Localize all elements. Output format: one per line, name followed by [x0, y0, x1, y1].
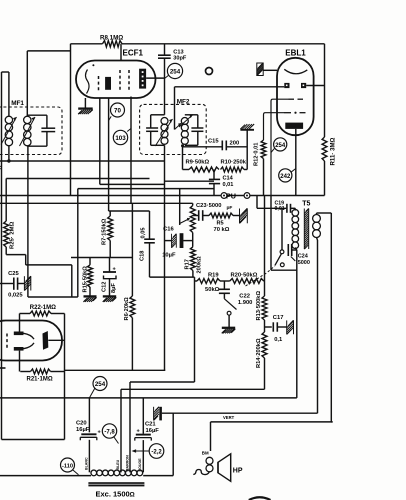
- resistor R15 50k: [88, 265, 93, 287]
- svg-text:1.900: 1.900: [238, 300, 253, 306]
- tick circle 70: [109, 116, 112, 120]
- svg-text:R20·50kΩ: R20·50kΩ: [231, 273, 258, 279]
- wire C23 to R5: [203, 215, 209, 217]
- inductor speaker voice coil: [206, 457, 213, 464]
- wire C22 top lead: [223, 281, 225, 289]
- grid cap connector (hatched): [257, 74, 259, 76]
- tube EBL1 diode anode left: [284, 83, 289, 88]
- wire MF2 column corner up: [164, 369, 166, 371]
- svg-text:+: +: [98, 430, 101, 436]
- tube ECF1 envelope: [76, 61, 156, 99]
- wire R12 bottom: [263, 159, 265, 196]
- capacitor MF1 tuning: [41, 127, 55, 129]
- capacitor C24 5000: [287, 244, 289, 256]
- wire voice coil hook: [193, 470, 209, 475]
- svg-text:C17: C17: [273, 315, 284, 321]
- wire R6 bottom lead: [131, 318, 133, 371]
- wire bus5 (to volume pot): [0, 202, 193, 204]
- arrow MF2 coupling tap: [175, 123, 182, 130]
- voltage circle 103: [113, 130, 127, 144]
- wire right box edge upper: [324, 44, 326, 137]
- arrow MF1 primary (adjustable): [1, 117, 17, 145]
- tick circle -7,8: [114, 437, 119, 444]
- wire C17 left lead: [265, 326, 272, 328]
- wire MF2 right cap branch bottom: [185, 144, 198, 146]
- wire bus3 to C14: [165, 180, 215, 182]
- wire row y277: [150, 276, 195, 278]
- wire C19 to T5: [291, 207, 296, 209]
- svg-text:EBL1: EBL1: [285, 49, 306, 58]
- wire C13 column upper: [164, 44, 166, 55]
- tube ECF1 triode anode: [105, 77, 111, 90]
- wire R14 bottom lead: [264, 358, 266, 389]
- svg-text:R25· 2MΩ: R25· 2MΩ: [10, 221, 16, 249]
- tube ECF1 grid g2 (dashed): [119, 70, 121, 91]
- capacitor C20 16uF (electrolytic): [81, 433, 96, 435]
- wire pot to C23: [193, 215, 199, 217]
- wire EBL1 anode to R11 column: [306, 85, 324, 87]
- svg-text:C18: C18: [139, 251, 145, 261]
- wire switch pole: [281, 208, 283, 250]
- tick circle -110: [73, 470, 79, 475]
- wire pot top lead: [192, 203, 194, 205]
- wire C14 bottom lead: [213, 184, 215, 196]
- svg-text:16µF: 16µF: [146, 428, 160, 434]
- tube V4 cathode wedge: [43, 331, 49, 350]
- wire MF1 cap lead bottom: [46, 132, 48, 147]
- arrow MF2 primary (adjustable): [155, 119, 172, 146]
- wire C15 row left: [183, 146, 222, 148]
- wire C21 column top: [142, 398, 144, 434]
- resistor R22 1M: [30, 311, 51, 316]
- svg-text:MF1: MF1: [11, 100, 24, 107]
- wire MF2 right cap branch top: [185, 114, 198, 116]
- capacitor C22 1900: [219, 288, 230, 290]
- svg-text:C14: C14: [223, 176, 234, 182]
- svg-text:T5: T5: [302, 201, 310, 208]
- tick circle 254 bottom: [89, 388, 94, 398]
- tube ECF1 heater filament: [86, 70, 90, 94]
- wire MF1 cap branch bottom: [27, 145, 47, 147]
- wire R13-R14 link: [264, 320, 266, 332]
- svg-text:R14·200kΩ: R14·200kΩ: [256, 338, 262, 368]
- wire ECF1 pentode anode to C13 node: [146, 77, 164, 79]
- arrow pot wiper: [180, 219, 189, 224]
- junction dot MF1 bottom: [7, 159, 10, 162]
- resistor R12 0,01: [261, 140, 266, 159]
- wire row y382: [130, 381, 195, 383]
- tube V4 envelope: [0, 321, 62, 361]
- wire feed row y257: [71, 257, 132, 259]
- wire bus3 (short): [100, 183, 165, 185]
- wire speaker drop: [210, 422, 212, 451]
- tube ECF1 grid g1 (dashed): [98, 76, 100, 91]
- wire switch box bottom: [271, 269, 297, 271]
- inductor MF1 secondary: [24, 116, 31, 123]
- wire MF2 left cap branch top: [151, 114, 165, 116]
- wire MF2 left cap lead bottom: [150, 131, 152, 145]
- wire R7 top link: [109, 210, 150, 212]
- wire R7 bottom lead: [109, 211, 111, 216]
- svg-text:BLANC: BLANC: [85, 457, 89, 470]
- capacitor C25 0,025: [13, 278, 15, 290]
- svg-text:50kΩ: 50kΩ: [205, 287, 220, 293]
- wire MF1 cap lead top: [46, 115, 48, 128]
- chassis cap block (hatched): [154, 418, 156, 420]
- svg-text:0,025: 0,025: [8, 293, 23, 299]
- tube EBL1 grid g2 (dash-dot): [284, 112, 291, 114]
- ground C12: [103, 295, 116, 297]
- box MF1 (dashed): [0, 107, 62, 155]
- svg-text:-110: -110: [62, 464, 73, 470]
- wire MF1 cap branch top: [27, 114, 47, 116]
- svg-text:BLEU: BLEU: [116, 459, 120, 469]
- resistor R6 20k: [130, 296, 135, 318]
- resistor R11 3M (inline right box edge): [322, 137, 327, 161]
- resistor R10 250k: [221, 167, 245, 172]
- wire C25 left lead: [0, 283, 14, 285]
- svg-text:R11· 3MΩ: R11· 3MΩ: [330, 137, 337, 165]
- terminal PU right: [244, 193, 250, 199]
- wire R19-R20 link: [220, 280, 230, 282]
- wire jog down: [25, 255, 27, 265]
- svg-text:R8 1MΩ: R8 1MΩ: [100, 35, 123, 42]
- wire C18 bottom lead: [149, 243, 151, 277]
- wire top bus right of R8: [122, 43, 325, 45]
- tick circle 242: [291, 169, 296, 173]
- chassis block C17 (hatched): [287, 332, 289, 334]
- voltage circle 70: [111, 103, 125, 117]
- svg-text:254: 254: [95, 381, 106, 388]
- chassis bar (hatched): [240, 127, 242, 129]
- svg-text:5000: 5000: [298, 260, 310, 266]
- wire EBL1 diode line from MF2: [175, 86, 285, 88]
- wire speaker line 2: [211, 421, 333, 423]
- svg-text:R10·250k: R10·250k: [221, 160, 247, 166]
- wire Exc right lead: [143, 475, 173, 477]
- svg-text:ECF1: ECF1: [123, 49, 144, 58]
- wire C14 top lead: [213, 170, 215, 180]
- svg-text:242: 242: [280, 174, 291, 180]
- svg-text:10µF: 10µF: [162, 253, 176, 259]
- tube V4 grid (dashed): [6, 334, 8, 351]
- resistor R17 200k: [190, 247, 195, 271]
- resistor R9 50k: [189, 167, 219, 172]
- wire C15 row right: [226, 146, 247, 148]
- terminal circle: [206, 68, 213, 75]
- voltage circle 254 bottom: [93, 377, 107, 391]
- capacitor C17 0,1: [272, 322, 274, 331]
- svg-text:200kΩ: 200kΩ: [196, 256, 202, 274]
- resistor R21 1M: [31, 369, 51, 374]
- wire pot col down: [194, 277, 196, 382]
- svg-text:pF: pF: [227, 205, 233, 211]
- svg-text:Exc. 1500: Exc. 1500: [96, 490, 130, 499]
- inductor MF1 primary: [5, 116, 12, 123]
- wire AVC link: [28, 296, 78, 298]
- tick circle 254 mid: [271, 149, 274, 153]
- wire R20 to R13 column: [263, 280, 266, 282]
- ground R15: [84, 295, 97, 297]
- dashed link R20-switch: [246, 266, 275, 286]
- arrow MF2 secondary (adjustable): [179, 115, 193, 128]
- wire R10 to chassis column: [244, 169, 247, 171]
- wire switch to ground: [228, 315, 230, 327]
- wire C25 right lead: [18, 283, 25, 285]
- svg-text:R6·20kΩ: R6·20kΩ: [124, 297, 130, 321]
- svg-text:C22: C22: [239, 293, 250, 299]
- svg-text:VERT: VERT: [223, 415, 235, 420]
- wire chassis column: [246, 130, 248, 170]
- capacitor C13 30pF: [158, 54, 171, 56]
- wire R6 top lead: [131, 203, 133, 296]
- capacitor MF2 primary tuning: [146, 127, 158, 129]
- wire bottom-left bus: [2, 439, 65, 441]
- svg-text:R15·50kΩ: R15·50kΩ: [82, 266, 88, 293]
- wire bus4: [78, 188, 214, 190]
- tube EBL1 diode anode right: [301, 83, 306, 88]
- wire C16 right lead: [183, 240, 193, 242]
- wire jog right: [26, 264, 72, 266]
- inductor Exc 1500 field coil: [91, 470, 97, 476]
- wire R25 top lead: [5, 179, 7, 222]
- chassis bar right of R5 (hatched): [240, 221, 242, 223]
- capacitor C19 0,01: [286, 204, 288, 213]
- voltage circle -110: [61, 458, 75, 472]
- inductor MF2 secondary: [181, 118, 188, 125]
- tube V4 diode plate upper: [14, 332, 24, 336]
- svg-text:R13·500kΩ: R13·500kΩ: [256, 291, 262, 321]
- svg-text:254: 254: [170, 69, 181, 76]
- wire C12 top lead: [109, 258, 111, 273]
- stamp arc bottom: [249, 497, 271, 500]
- wire EBL1 g2 hook down to R12: [264, 113, 285, 140]
- wire T5 secondary top: [316, 213, 318, 215]
- wire down to AVC node: [71, 265, 73, 297]
- wire R22 ends: [20, 313, 31, 315]
- wire MF1 secondary top lead: [26, 51, 28, 116]
- svg-text:C23·5000: C23·5000: [196, 203, 221, 209]
- switch pivot circle: [280, 263, 284, 267]
- wire row y398 (main B-): [0, 397, 297, 399]
- svg-text:-7,8: -7,8: [104, 430, 115, 436]
- potentiometer P volume: [190, 206, 195, 233]
- wire C19 feed: [256, 196, 258, 209]
- wire MF1 secondary bottom lead (AVC column): [27, 146, 29, 297]
- tube EBL1 heater arc: [284, 69, 307, 73]
- svg-text:Ω: Ω: [130, 492, 135, 499]
- svg-text:+: +: [137, 429, 140, 435]
- wire MF1 secondary feed: [27, 50, 70, 52]
- wire AVC bus: [0, 160, 165, 162]
- svg-text:8µF: 8µF: [111, 283, 117, 293]
- wire MF2 left cap branch bottom: [151, 144, 165, 146]
- wire right box edge lower: [324, 161, 326, 196]
- wire T5 secondary bottom: [317, 238, 318, 241]
- wire Exc left bus: [0, 475, 91, 477]
- wire C12 bottom lead: [109, 279, 111, 296]
- svg-text:C12: C12: [102, 282, 108, 292]
- wire C20 bottom lead (BLANC): [88, 440, 90, 473]
- svg-text:+: +: [113, 267, 116, 273]
- capacitor C16 10uF (electrolytic): [172, 246, 174, 248]
- switch contact circle: [227, 311, 231, 315]
- svg-text:0,01: 0,01: [275, 206, 285, 212]
- svg-text:C21: C21: [145, 422, 156, 428]
- tube ECF1 grid g3 (dashed): [128, 70, 130, 91]
- resistor R13 500k: [262, 296, 267, 320]
- wire MF2 primary bottom long column: [164, 145, 166, 370]
- arrow circle -2,2: [135, 450, 149, 452]
- wire left chain col: [77, 189, 79, 297]
- svg-text:70: 70: [114, 108, 121, 115]
- wire PU bus: [0, 195, 325, 197]
- resistor R19 50k: [197, 279, 220, 284]
- wire speaker line right: [330, 213, 332, 422]
- wire ECF1 heater down: [84, 98, 86, 108]
- switch contact top circle: [280, 250, 284, 254]
- wire R25 bottom to right: [6, 254, 26, 256]
- svg-text:C25: C25: [8, 271, 19, 277]
- svg-text:C15: C15: [208, 138, 219, 144]
- wire row y389: [121, 388, 265, 390]
- svg-text:0,01: 0,01: [223, 182, 234, 188]
- wire EBL1 grid tap into MF2: [174, 87, 176, 130]
- wire ECF1 pin down A: [99, 98, 101, 184]
- capacitor C14: [209, 178, 220, 180]
- capacitor C15 200: [221, 141, 223, 151]
- inductor MF2 primary: [161, 118, 168, 125]
- arrow MF1 secondary (adjustable): [20, 117, 36, 146]
- resistor R25 2M: [4, 221, 9, 247]
- wire feed from left bus: [2, 71, 9, 73]
- wire R25 bottom lead: [5, 247, 7, 255]
- svg-text:16µF: 16µF: [76, 427, 90, 433]
- svg-text:PU: PU: [226, 191, 236, 200]
- wire ECF1 pin down C: [130, 97, 132, 204]
- voltage circle 254 mid: [274, 138, 287, 151]
- wire T5 primary bottom column: [295, 248, 297, 251]
- wire MF1 primary top lead: [8, 72, 10, 116]
- wire C20 column: [88, 398, 90, 432]
- Exc core bar: [88, 482, 144, 486]
- wire C18 top lead: [149, 211, 151, 239]
- wire V4 cathode out: [48, 339, 64, 341]
- speaker HP driver: [217, 462, 219, 473]
- tube V4 diode plate lower: [14, 347, 24, 351]
- wire ECF1 screen grid to top bus: [120, 44, 122, 61]
- junction dot MF2 secondary: [181, 144, 184, 147]
- wire left edge bus: [1, 72, 3, 440]
- wire C16 left stub: [165, 240, 172, 242]
- svg-text:R21·1MΩ: R21·1MΩ: [27, 377, 53, 383]
- wire C13 column lower: [164, 58, 166, 115]
- svg-text:30pF: 30pF: [173, 56, 187, 62]
- svg-text:0,05: 0,05: [140, 227, 146, 238]
- wire MF2 sec to R9: [183, 169, 190, 171]
- svg-text:R5: R5: [217, 221, 224, 227]
- wire MARRON: [129, 382, 131, 472]
- wire VERT speaker line: [162, 412, 318, 414]
- wire R22 left lead: [19, 314, 21, 332]
- wire pot wiper up: [179, 189, 181, 225]
- voltage circle -7,8: [102, 424, 116, 438]
- wire MF2 left cap lead top: [150, 115, 152, 128]
- wire R17 bottom lead: [192, 271, 194, 278]
- wire C17 right lead: [277, 326, 286, 328]
- capacitor C23 5000pF: [198, 210, 200, 221]
- tube EBL1 cathode bar: [285, 123, 303, 129]
- wire grid cap to EBL1: [263, 69, 277, 71]
- svg-text:R22-1MΩ: R22-1MΩ: [30, 305, 56, 311]
- resistor R5 70k: [209, 213, 233, 218]
- wire left box edge: [70, 44, 72, 196]
- capacitor C21 16uF (electrolytic): [136, 434, 151, 436]
- voltage circle 242: [279, 169, 292, 182]
- wire R19 lead: [195, 280, 198, 282]
- svg-text:R17: R17: [184, 259, 190, 269]
- terminal PU left: [221, 193, 227, 199]
- wire MF2 secondary bottom lead: [182, 146, 184, 170]
- voltage circle -2,2: [149, 444, 164, 459]
- svg-text:200: 200: [230, 140, 240, 146]
- wire R13 top lead: [264, 196, 266, 297]
- svg-text:C20: C20: [76, 421, 87, 427]
- wire V4 lower plate to R21: [19, 351, 21, 372]
- ground switch: [222, 327, 235, 329]
- transformer T5 secondary: [313, 215, 321, 223]
- svg-text:254: 254: [275, 143, 286, 149]
- wire MF2 right cap lead top: [197, 115, 199, 128]
- wire pot to junction: [192, 233, 194, 247]
- wire Exc right riser: [172, 413, 174, 475]
- wire R15 bottom lead: [89, 287, 91, 296]
- wire EBL1 cathode down: [295, 129, 297, 196]
- wire C21 bottom lead (ROUGE): [142, 440, 144, 472]
- svg-text:C24: C24: [298, 254, 309, 260]
- wire MF2 right cap lead bottom: [197, 131, 199, 145]
- wire R5 to chassis: [233, 215, 240, 217]
- resistor R14 200k: [262, 332, 267, 358]
- tube EBL1 grid g1 (dashes): [289, 98, 295, 100]
- wire switch box left: [270, 196, 272, 271]
- wire left edge stub: [0, 367, 6, 369]
- tube ECF1 pentode anode: [139, 69, 146, 89]
- svg-text:R9·50kΩ: R9·50kΩ: [186, 160, 210, 166]
- transformer T5 primary: [292, 210, 299, 217]
- svg-text:103: 103: [115, 135, 126, 142]
- capacitor MF2 secondary tuning: [191, 127, 203, 129]
- speaker HP horn: [218, 454, 231, 482]
- capacitor C25 mica plate (hatched): [24, 288, 26, 290]
- tube V4 plate leads curved: [24, 333, 35, 339]
- box MF2 (dashed): [140, 104, 207, 154]
- svg-text:C16: C16: [163, 226, 174, 232]
- wire bus2: [6, 178, 149, 180]
- wire R21 ends: [20, 371, 30, 373]
- ground ECF1 cathode: [78, 107, 93, 109]
- svg-text:-2,2: -2,2: [151, 450, 162, 456]
- tick circle 254 to node: [165, 76, 169, 79]
- wire MF1 primary bottom lead: [8, 146, 10, 161]
- svg-text:70 kΩ: 70 kΩ: [214, 227, 230, 233]
- wire top B+ bus: [71, 43, 103, 45]
- wire R15 top lead: [89, 258, 91, 265]
- wire BLEU: [120, 389, 122, 472]
- wire tube column right: [64, 314, 66, 440]
- resistor R20 50k (pot): [230, 279, 264, 284]
- wire C24 link: [292, 249, 297, 251]
